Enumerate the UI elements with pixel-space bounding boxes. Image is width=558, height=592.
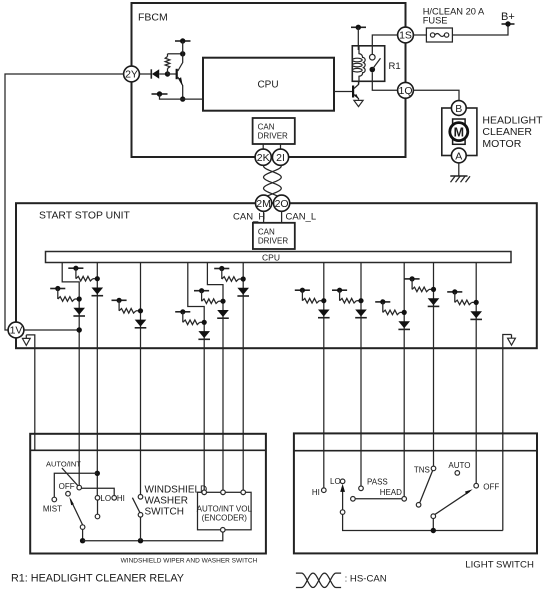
contact selector common (95, 514, 100, 519)
svg-text:HEAD: HEAD (380, 488, 402, 497)
node cell 4 junction (202, 320, 207, 325)
resistor cell 10 (412, 287, 433, 292)
connector 2I (272, 149, 288, 165)
contact HEAD left (351, 497, 356, 502)
svg-text:OFF: OFF (483, 482, 499, 491)
node collector junction (180, 51, 185, 56)
connector 2K (255, 149, 271, 165)
contact wiper HI (112, 496, 117, 501)
svg-text:CLEANER: CLEANER (482, 126, 532, 138)
svg-text:CPU: CPU (262, 252, 280, 262)
wire CAN driver to 2I (280, 144, 282, 149)
node cell 9 junction (402, 310, 407, 315)
wire input light HEAD (403, 263, 405, 497)
wire input light OFF (475, 263, 477, 484)
power tick cell 1 (50, 286, 65, 299)
diode cell 5 (217, 310, 229, 318)
wire input light TNS (433, 263, 435, 467)
node cell 1 junction (77, 296, 82, 301)
power tick (relay supply) (351, 25, 366, 50)
wire input encoder 3 (242, 263, 244, 491)
node cell 2 junction (95, 276, 100, 281)
windshield wiper and washer switch box (30, 434, 266, 554)
connector 1S (398, 27, 414, 43)
node cell 7 junction (321, 298, 326, 303)
diode cell 11 (470, 311, 482, 319)
svg-text:HI: HI (117, 494, 125, 503)
node 1V junction on AUTO/INT wire (77, 327, 82, 332)
svg-text:R1: R1 (389, 61, 401, 72)
svg-text:: HS-CAN: : HS-CAN (345, 574, 387, 585)
power tick cell 4 (175, 309, 190, 322)
relay R1 (352, 46, 384, 85)
svg-text:LO: LO (100, 494, 111, 503)
svg-text:WINDSHIELD WIPER AND WASHER SW: WINDSHIELD WIPER AND WASHER SWITCH (121, 558, 258, 565)
contact light PASS (359, 486, 364, 491)
contact wiper LO (95, 496, 100, 501)
motor M1 (450, 119, 468, 144)
diode cell 7 (318, 310, 330, 318)
resistor R2 (vertical) (165, 54, 170, 74)
node emitter junction (180, 96, 185, 101)
diode cell 10 (428, 298, 440, 306)
power tick cell 2 (68, 266, 83, 279)
ground arrow (left, to case) (22, 335, 30, 346)
wire input wiper LO (96, 263, 98, 496)
wire 1V ground rail (24, 329, 79, 331)
wire 2Y to diode D1 (139, 73, 151, 75)
wire ground to wiper switch box (26, 335, 35, 450)
svg-text:2I: 2I (276, 152, 285, 164)
CPU U2 bar (START STOP UNIT) (46, 252, 512, 263)
CAN driver (FBCM) (253, 118, 295, 144)
AUTO/INT VOL encoder box (198, 492, 252, 530)
svg-text:LIGHT SWITCH: LIGHT SWITCH (465, 560, 534, 571)
wire 2O to CAN driver (281, 211, 283, 223)
diode cell 4 (198, 331, 210, 339)
wire selector common to bus (343, 514, 503, 530)
diode cell 3 (135, 320, 147, 328)
resistor cell 6 (222, 277, 243, 282)
wire input washer (140, 263, 142, 495)
contact TNS common (416, 503, 421, 508)
wire junction to MIST (54, 473, 97, 497)
svg-text:1Q: 1Q (398, 85, 412, 97)
node junction LO/MIST (95, 471, 100, 476)
svg-text:HEADLIGHT: HEADLIGHT (482, 114, 543, 126)
fuse H/CLEAN 20 A (426, 28, 452, 42)
connector 1Q (398, 82, 414, 98)
svg-text:FBCM: FBCM (138, 12, 168, 24)
connector 1V (8, 322, 24, 338)
diode cell 2 (92, 288, 104, 296)
wire main common to bus (432, 519, 434, 531)
node cell 3 junction (138, 308, 143, 313)
svg-text:(ENCODER): (ENCODER) (202, 514, 248, 523)
wire relay arm to 1Q (372, 72, 397, 90)
HS-CAN legend twisted pair (296, 573, 341, 587)
diode cell 9 (398, 321, 410, 329)
svg-text:TNS: TNS (414, 466, 430, 475)
contact washer bottom (138, 513, 143, 518)
wire input AUTO/INT (62, 263, 79, 486)
svg-text:START STOP UNIT: START STOP UNIT (39, 211, 130, 222)
svg-text:CAN_L: CAN_L (286, 212, 317, 223)
HS-CAN twisted pair (264, 166, 282, 200)
wire input encoder 1 (188, 263, 204, 491)
node cell 10 junction (431, 287, 436, 292)
ground (hatched) (450, 176, 470, 182)
connector 2O (274, 195, 290, 211)
svg-text:AUTO: AUTO (448, 461, 470, 470)
svg-text:1S: 1S (399, 30, 412, 42)
svg-text:MIST: MIST (43, 505, 62, 514)
wire 1Q to motor B (413, 90, 459, 100)
wire relay contact to 1S (372, 35, 397, 54)
svg-text:1V: 1V (10, 325, 23, 337)
wire resistor top to collector node (168, 53, 183, 55)
B+ terminal (501, 11, 515, 27)
contact AUTO/INT (77, 485, 82, 490)
transistor Q2 (352, 81, 359, 100)
svg-text:OFF: OFF (59, 482, 75, 491)
ground (open triangle below Q2) (354, 100, 363, 106)
wire AUTO/INT contact to HI contact (82, 488, 115, 495)
power tick cell 8 (332, 288, 347, 301)
ground lid line (light box) (294, 450, 537, 452)
resistor cell 7 (302, 298, 323, 303)
svg-text:2O: 2O (275, 198, 289, 210)
ground lid line (wiper box) (30, 449, 266, 451)
wire input light PASS (360, 263, 362, 487)
headlight cleaner motor bracket (442, 108, 477, 156)
diode cell 6 (237, 288, 249, 296)
svg-text:B: B (455, 103, 462, 115)
resistor cell 9 (383, 310, 404, 315)
svg-text:M: M (454, 125, 464, 139)
contact TNS (431, 466, 436, 471)
START STOP UNIT box (16, 203, 537, 348)
FBCM box (132, 3, 406, 157)
light main blade with arrow to OFF (434, 489, 472, 515)
contact light main common (431, 514, 436, 519)
node cell 6 junction (241, 276, 246, 281)
resistor cell 8 (340, 298, 361, 303)
wire washer to bus (140, 517, 142, 541)
svg-text:2Y: 2Y (125, 69, 138, 81)
svg-text:PASS: PASS (367, 477, 388, 486)
node light bus junction (431, 528, 436, 533)
connector B (motor) (451, 101, 466, 116)
svg-text:FUSE: FUSE (423, 16, 448, 26)
svg-text:DRIVER: DRIVER (258, 132, 288, 141)
encoder pin contacts (202, 490, 207, 495)
svg-text:CAN_H: CAN_H (233, 212, 265, 223)
resistor cell 11 (455, 300, 476, 305)
main wiper blade with arrow to OFF (69, 497, 82, 525)
wire motor A to ground (458, 163, 460, 176)
node cell 11 junction (474, 300, 479, 305)
CPU U1 (FBCM) (203, 58, 334, 111)
svg-text:AUTO/INT: AUTO/INT (46, 459, 81, 468)
contact light HI (322, 488, 327, 493)
ground arrow (right, to case) (508, 335, 516, 346)
resistor cell 2 (76, 276, 97, 281)
svg-text:B+: B+ (501, 11, 515, 23)
wire ground bus (wiper box) (83, 532, 223, 541)
node bus left junction (80, 538, 85, 543)
diode D1 (anode right, pointing left) (151, 69, 167, 78)
wire fuse to B+ (452, 24, 508, 35)
contact washer top (138, 495, 143, 500)
node cell 8 junction (358, 298, 363, 303)
wire input encoder 2 (207, 263, 223, 491)
wire 2M to CAN driver (263, 211, 265, 223)
power tick cell 5 (194, 288, 209, 301)
power tick cell 10 (405, 276, 420, 289)
connector 2M (256, 195, 272, 211)
wire common to bus (82, 529, 84, 540)
resistor cell 1 (58, 297, 79, 302)
light switch box (294, 433, 537, 553)
svg-text:CAN: CAN (258, 123, 275, 132)
svg-text:2M: 2M (256, 198, 271, 210)
power tick cell 3 (112, 298, 127, 311)
resistor cell 5 (202, 299, 223, 304)
transistor Q1 (168, 54, 183, 99)
selector blade LO (97, 500, 99, 514)
svg-text:DRIVER: DRIVER (258, 236, 288, 245)
power tick cell 7 (295, 288, 310, 301)
node washer bus junction (138, 538, 143, 543)
diode cell 8 (355, 310, 367, 318)
svg-text:R1: HEADLIGHT CLEANER RELAY: R1: HEADLIGHT CLEANER RELAY (11, 572, 184, 584)
contact light selector common (340, 510, 345, 515)
wire 1S to fuse (413, 34, 426, 36)
svg-text:2K: 2K (257, 152, 270, 164)
wire input light HI (323, 263, 325, 488)
wire ground to light switch box (503, 335, 512, 531)
CAN driver (START STOP UNIT) (253, 223, 295, 249)
svg-text:CAN: CAN (258, 227, 275, 236)
contact light OFF (474, 483, 479, 488)
svg-text:MOTOR: MOTOR (482, 138, 521, 150)
wire 2Y to left edge and down to 1V (5, 74, 124, 330)
node cell 5 junction (220, 299, 225, 304)
connector 2Y (124, 66, 140, 82)
power tick cell 9 (375, 299, 390, 312)
washer switch blade (132, 498, 140, 513)
svg-text:A: A (455, 150, 462, 162)
contact light LO (340, 479, 345, 484)
wire CAN driver to 2K (262, 144, 264, 149)
svg-text:WASHER: WASHER (145, 496, 189, 507)
svg-text:SWITCH: SWITCH (145, 507, 184, 518)
HEAD blade wire (355, 498, 402, 500)
contact AUTO (455, 471, 460, 476)
light selector blade to LO (340, 484, 345, 510)
svg-text:LO: LO (330, 477, 341, 486)
node base junction (165, 71, 170, 76)
resistor cell 4 (183, 320, 204, 325)
power tick (FBCM top) (175, 38, 191, 54)
TNS blade (420, 471, 433, 503)
power tick (FBCM lower) (152, 91, 204, 99)
power tick cell 6 (214, 266, 229, 279)
resistor cell 3 (119, 309, 140, 314)
wire CPU to Q2 base (334, 91, 352, 93)
svg-text:HI: HI (312, 488, 320, 497)
diode cell 1 (73, 308, 85, 316)
svg-text:CPU: CPU (257, 80, 278, 91)
power tick cell 11 (447, 289, 462, 302)
contact HEAD right (402, 497, 407, 502)
connector A (motor) (451, 148, 466, 163)
contact wiper common (80, 525, 85, 530)
svg-text:AUTO/INT VOL: AUTO/INT VOL (197, 505, 253, 514)
contact MIST (52, 497, 57, 502)
contact wiper OFF (66, 491, 71, 496)
